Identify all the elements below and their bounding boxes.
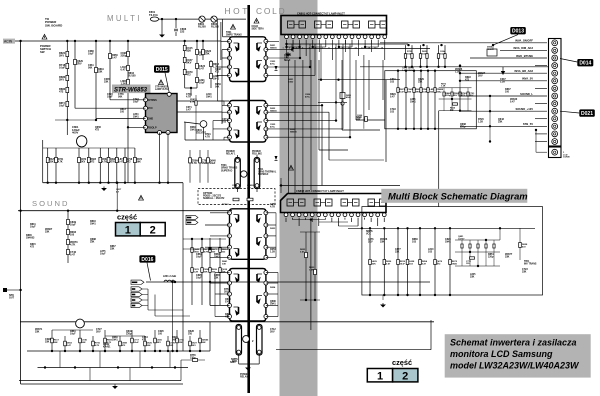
- junction: [459, 80, 461, 82]
- wire from CN801 pin 12: [358, 40, 360, 56]
- wire to CNI pin 8: [460, 95, 547, 97]
- wire: [286, 44, 288, 58]
- wire band vertical: [321, 105, 323, 185]
- resistor: [453, 103, 458, 105]
- ground: [102, 187, 106, 191]
- svg-text:R755220p: R755220p: [190, 354, 196, 360]
- resistor: [66, 101, 69, 106]
- svg-text:L801 2.2uH: L801 2.2uH: [163, 275, 176, 278]
- wire: [280, 178, 282, 193]
- connector CNI900 pin 2: [552, 48, 558, 54]
- wire string 4: [438, 45, 440, 67]
- connector pin inner: [554, 95, 556, 97]
- wire: [535, 130, 537, 152]
- IC U801 pin 2: [144, 106, 148, 110]
- resistor: [134, 157, 137, 162]
- wire from CN801 pin 14: [371, 40, 373, 52]
- resistor: [115, 157, 118, 162]
- junction: [66, 119, 68, 121]
- resistor: [210, 61, 213, 66]
- net label 1: [131, 292, 142, 296]
- svg-text:R6601N41: R6601N41: [112, 336, 118, 342]
- connector pin 6: [317, 35, 321, 39]
- resistor: [427, 88, 429, 93]
- resistor left chain 4: [66, 87, 69, 92]
- transistor Q803: [76, 319, 85, 328]
- connector inner lamp symbol: [380, 199, 387, 206]
- junction: [95, 119, 97, 121]
- resistor: [104, 338, 107, 343]
- winding polarity mark: [257, 122, 262, 130]
- resistor: [196, 77, 199, 82]
- junction: [116, 182, 118, 184]
- czesc box top: [116, 223, 166, 237]
- transformer pin: [264, 292, 268, 296]
- transformer pin: [228, 245, 232, 249]
- resistor: [55, 157, 58, 162]
- wire string 1: [411, 45, 413, 67]
- wire below CN802 pin 16: [383, 218, 385, 222]
- wire: [67, 211, 69, 263]
- junction: [309, 66, 311, 68]
- net label 3: [131, 303, 142, 307]
- wire: [159, 133, 161, 183]
- junction: [104, 350, 106, 352]
- warning triangle: [42, 34, 47, 39]
- wire from D016: [147, 263, 151, 281]
- wire: [222, 104, 230, 106]
- wire: [180, 360, 182, 381]
- wire from CN801 pin 8: [331, 40, 333, 60]
- connector inner lamp symbol: [288, 21, 295, 28]
- connector pin 6: [317, 213, 321, 217]
- IC U801 pin 3: [144, 117, 148, 121]
- junction: [66, 40, 68, 42]
- wire secondary pin: [266, 272, 278, 274]
- connector pin 12: [357, 35, 361, 39]
- transformer pin: [228, 48, 232, 52]
- junction: [477, 265, 479, 267]
- wire from CN801 pin 9: [338, 40, 340, 47]
- wire winding pin: [215, 316, 230, 318]
- wire bottom string 10: [176, 330, 178, 351]
- wire: [370, 212, 372, 214]
- wire: [349, 44, 351, 137]
- junction: [426, 66, 428, 68]
- svg-text:ACIN: ACIN: [4, 40, 13, 44]
- junction: [109, 40, 111, 42]
- small circle comp: [341, 102, 344, 105]
- svg-text:GND: GND: [148, 118, 154, 121]
- resistor: [419, 54, 421, 59]
- wire: [351, 34, 353, 36]
- wire: [110, 99, 146, 101]
- pin: [237, 350, 241, 354]
- wire comp string 7: [124, 148, 126, 183]
- wire: [365, 46, 378, 48]
- transformer pin: [264, 255, 268, 259]
- junction: [492, 44, 494, 46]
- wire: [196, 41, 198, 88]
- transformer pin: [228, 135, 232, 139]
- junction: [437, 66, 439, 68]
- junction: [127, 126, 129, 128]
- wire: [266, 136, 350, 138]
- junction: [19, 40, 21, 42]
- wire band right vert: [320, 44, 322, 80]
- diode bridge D801: [199, 16, 205, 22]
- warning triangle: [159, 80, 164, 85]
- wire from CN801 pin 1: [286, 40, 288, 47]
- connector pin 1: [284, 213, 288, 217]
- wire: [239, 363, 260, 365]
- junction: [64, 350, 66, 352]
- arrow down: [501, 67, 505, 75]
- junction: [361, 227, 363, 229]
- wire: [256, 188, 258, 192]
- junction: [209, 281, 211, 283]
- junction: [499, 227, 501, 229]
- wire below CN802 pin 11: [351, 218, 353, 222]
- junction: [337, 79, 339, 81]
- wire long drop: [310, 220, 312, 330]
- connector CNI900 pin 1: [552, 40, 558, 46]
- wire: [209, 283, 211, 306]
- wire to D014: [560, 59, 577, 63]
- junction: [320, 79, 322, 81]
- resistor: [202, 49, 205, 54]
- wire to CNI pin 4: [535, 65, 547, 67]
- wire IC to transformer: [177, 100, 229, 102]
- wire below CN802 pin 15: [377, 218, 379, 226]
- connector inner lamp symbol: [369, 21, 376, 28]
- resistor: [219, 268, 222, 273]
- junction: [131, 350, 133, 352]
- wire: [224, 136, 230, 138]
- junction: [189, 350, 191, 352]
- wire below CN802 pin 4: [305, 218, 307, 220]
- junction: [209, 248, 211, 250]
- junction: [459, 64, 461, 66]
- wire: [311, 212, 313, 214]
- wire: [18, 210, 232, 212]
- wire mid string 3: [219, 238, 221, 305]
- wire: [195, 95, 197, 140]
- transformer winding group right bracket: [249, 101, 266, 143]
- wire: [318, 34, 320, 36]
- junction: [434, 70, 436, 72]
- resistor: [78, 157, 81, 162]
- resistor: [119, 341, 122, 346]
- svg-text:C690220p: C690220p: [121, 51, 128, 58]
- wire drop from net bus: [172, 282, 174, 351]
- wire: [266, 57, 300, 59]
- svg-text:CN802 HOT-CONNECT-07 LAMP-IN: CN802 HOT-CONNECT-07 LAMP-INLET: [296, 189, 344, 193]
- wire: [355, 24, 359, 26]
- junction: [161, 18, 163, 20]
- wire from CN801 pin 2: [292, 40, 294, 52]
- IC U801 pin 4: [144, 125, 148, 129]
- connector CNI900 pin 7: [552, 86, 558, 92]
- wire: [59, 351, 61, 368]
- junction: [292, 47, 294, 49]
- wire: [184, 122, 186, 140]
- svg-text:L8861N41: L8861N41: [410, 98, 416, 104]
- wire: [499, 228, 501, 240]
- resistor: [233, 198, 239, 201]
- transformer pin: [264, 245, 268, 249]
- junction: [440, 44, 442, 46]
- wire: [221, 50, 223, 113]
- warning triangle: [289, 165, 294, 170]
- wire: [266, 120, 336, 122]
- wire: [351, 212, 353, 214]
- wire: [190, 88, 192, 96]
- svg-text:Q6801N41: Q6801N41: [270, 300, 277, 306]
- winding polarity mark: [257, 215, 262, 223]
- junction: [420, 70, 422, 72]
- resistor: [92, 341, 95, 346]
- transformer T801 core: [247, 5, 250, 393]
- transformer pin: [264, 103, 268, 107]
- wire below CN802 pin 5: [311, 218, 313, 222]
- ground: [113, 385, 117, 389]
- wire: [348, 202, 353, 204]
- wire: [202, 41, 204, 60]
- connector CNI900 pin 6: [552, 78, 558, 84]
- wire below CN802 pin 9: [337, 218, 339, 226]
- resistor: [420, 88, 422, 93]
- resistor: [459, 92, 461, 96]
- wire: [343, 202, 347, 204]
- resistor: [449, 260, 452, 265]
- connector pin 4: [304, 35, 308, 39]
- net label 2: [131, 298, 142, 302]
- title box Multi Block Schematic Diagram: [381, 189, 527, 203]
- wire: [305, 34, 307, 36]
- wire from CN801 pin 3: [299, 40, 301, 47]
- connector pin 5: [310, 213, 314, 217]
- resistor: [365, 117, 368, 122]
- wire string 3: [426, 45, 428, 67]
- wire: [459, 66, 461, 112]
- wire: [439, 98, 472, 100]
- junction: [419, 227, 421, 229]
- transformer pin: [264, 65, 268, 69]
- IC label STR-W6853 box: [112, 85, 151, 94]
- wire: [8, 40, 221, 42]
- connector CNI900 pin 10: [552, 108, 558, 114]
- wire below CN802 pin 8: [331, 218, 333, 222]
- inductor L801: [164, 280, 175, 282]
- pin: [255, 159, 259, 163]
- junction: [335, 119, 337, 121]
- junction: [74, 40, 76, 42]
- svg-text:COLD: COLD: [256, 6, 286, 16]
- connector pin inner: [554, 42, 556, 44]
- wire loop inverter: [362, 207, 543, 295]
- wire: [222, 19, 224, 37]
- wire: [216, 41, 218, 101]
- wire secondary pin: [266, 293, 278, 295]
- isolation barrier gray band: [280, 0, 318, 396]
- junction: [383, 227, 385, 229]
- junction: [310, 218, 312, 220]
- svg-text:1: 1: [125, 225, 131, 237]
- connector pin 15: [376, 35, 380, 39]
- transformer pin: [264, 127, 268, 131]
- transformer pin: [228, 56, 232, 60]
- ground: [160, 33, 164, 37]
- wire comp string 1: [55, 148, 57, 183]
- resistor: [411, 54, 413, 59]
- junction: [19, 210, 21, 212]
- junction: [489, 125, 491, 127]
- transformer pin: [264, 110, 268, 114]
- wire: [439, 87, 472, 89]
- junction: [298, 46, 300, 48]
- wire inverter string 5: [434, 228, 436, 295]
- connector CN801 block: [281, 16, 387, 35]
- wire secondary pin: [266, 316, 278, 318]
- wire: [209, 322, 211, 351]
- wire: [342, 44, 344, 129]
- wire lamp drop: [310, 60, 312, 190]
- wire: [455, 265, 500, 267]
- wire: [344, 212, 346, 214]
- wire lamp drop: [288, 60, 290, 193]
- wire: [329, 159, 384, 161]
- wire: [384, 34, 386, 36]
- wire to CNI pin 5: [460, 72, 547, 74]
- wire lamp return long: [287, 43, 409, 45]
- wire: [301, 24, 305, 26]
- junction: [199, 350, 201, 352]
- junction: [383, 294, 385, 296]
- tag D014: [577, 59, 593, 66]
- wire band-right string2: [314, 232, 316, 300]
- resistor: [107, 157, 110, 162]
- wire: [343, 24, 347, 26]
- connector pin 2: [291, 213, 295, 217]
- junction: [176, 350, 178, 352]
- wire: [184, 41, 186, 88]
- connector CNI900 pin 9: [552, 101, 558, 107]
- wire: [89, 368, 91, 381]
- junction: [285, 46, 287, 48]
- wire bottom string 6: [131, 330, 133, 351]
- wire inverter string 2: [397, 228, 399, 295]
- wire: [7, 289, 21, 291]
- wire to CNI pin 1: [380, 42, 547, 44]
- wire bottom string 8: [154, 330, 156, 351]
- wire to CNI pin 7: [535, 87, 547, 89]
- resistor chain2 1: [127, 51, 130, 56]
- transformer pin: [264, 73, 268, 77]
- wire string 5: [444, 45, 446, 67]
- wire secondary pin: [266, 305, 278, 307]
- svg-text:Q64810uF: Q64810uF: [210, 159, 217, 165]
- junction: [171, 281, 173, 283]
- transformer pin: [264, 119, 268, 123]
- wire from CN801 pin 15: [377, 40, 379, 47]
- wire: [439, 110, 472, 112]
- connector CNI900 pin 12: [552, 123, 558, 129]
- wire: [210, 60, 212, 88]
- wire: [348, 227, 535, 229]
- transformer pin: [264, 223, 268, 227]
- junction: [78, 182, 80, 184]
- wire below CN802 pin 13: [364, 218, 366, 220]
- resistor: [131, 338, 134, 343]
- wire to CNI pin 9: [535, 103, 547, 105]
- wire: [318, 40, 320, 44]
- junction: [95, 40, 97, 42]
- svg-text:INVA_ON/OFF: INVA_ON/OFF: [515, 39, 533, 43]
- svg-text:R6601N41: R6601N41: [190, 126, 196, 132]
- resistor: [493, 244, 495, 248]
- wire: [363, 122, 365, 129]
- junction: [174, 281, 176, 283]
- junction: [397, 70, 399, 72]
- wire: [20, 41, 22, 384]
- wire: [184, 122, 200, 124]
- wire winding pin: [215, 272, 230, 274]
- connector pin inner: [554, 110, 556, 112]
- wire: [298, 212, 300, 214]
- svg-text:HOT: HOT: [225, 6, 250, 16]
- junction: [419, 294, 421, 296]
- junction: [449, 294, 451, 296]
- connector pin 4: [304, 213, 308, 217]
- connector inner lamp symbol: [299, 199, 306, 206]
- junction: [405, 128, 407, 130]
- connector inner lamp symbol: [315, 21, 322, 28]
- svg-text:POWERRELAY 1: POWERRELAY 1: [226, 151, 236, 155]
- junction: [202, 40, 204, 42]
- connector pin inner: [554, 102, 556, 104]
- wire: [238, 354, 240, 364]
- wire: [213, 120, 230, 122]
- wire: [223, 36, 232, 38]
- resistor: [183, 45, 186, 50]
- resistor: [195, 101, 197, 105]
- junction: [285, 43, 287, 45]
- junction: [485, 239, 487, 241]
- wire: [357, 212, 359, 214]
- junction: [104, 350, 106, 352]
- svg-text:FB/OLP: FB/OLP: [148, 126, 157, 129]
- junction: [116, 182, 118, 184]
- wire: [305, 212, 307, 214]
- junction: [459, 72, 461, 74]
- connector inner lamp symbol: [326, 21, 333, 28]
- transformer pin: [228, 119, 232, 123]
- wire to CNI pin 2: [500, 49, 547, 51]
- junction: [535, 129, 537, 131]
- wire lamp drop: [382, 60, 384, 100]
- resistor: [201, 268, 204, 273]
- wire: [285, 212, 287, 214]
- wire from CN801 pin 7: [325, 40, 327, 47]
- wire: [292, 212, 294, 214]
- resistor: [485, 244, 487, 248]
- wire: [327, 202, 331, 204]
- wire: [477, 240, 479, 266]
- wire: [266, 49, 292, 51]
- winding polarity mark: [257, 274, 262, 282]
- winding polarity mark: [257, 43, 262, 51]
